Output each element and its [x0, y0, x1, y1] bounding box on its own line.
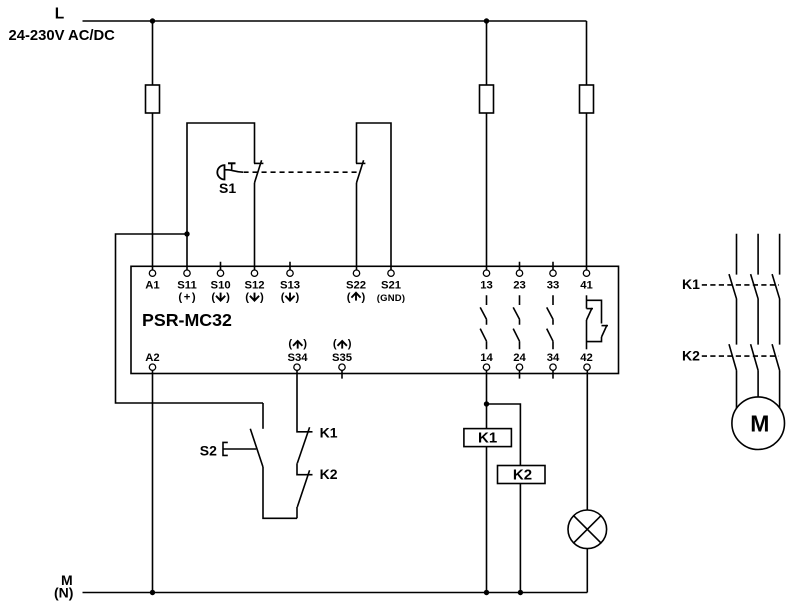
- svg-text:S34: S34: [287, 352, 308, 364]
- svg-text:S35: S35: [332, 352, 352, 364]
- svg-text:S1: S1: [219, 180, 236, 196]
- svg-text:S22: S22: [346, 280, 366, 292]
- svg-text:K1: K1: [682, 276, 700, 292]
- svg-text:42: 42: [580, 352, 593, 364]
- svg-text:): ): [348, 338, 352, 350]
- svg-text:+: +: [184, 292, 191, 304]
- svg-text:S10: S10: [211, 280, 231, 292]
- svg-text:33: 33: [547, 280, 560, 292]
- svg-text:24-230V AC/DC: 24-230V AC/DC: [9, 28, 116, 44]
- svg-text:): ): [296, 292, 300, 304]
- svg-text:L: L: [55, 6, 64, 23]
- svg-text:(GND): (GND): [377, 293, 405, 304]
- svg-text:S21: S21: [381, 280, 401, 292]
- svg-text:): ): [192, 292, 196, 304]
- svg-text:S2: S2: [200, 443, 217, 459]
- svg-text:): ): [362, 292, 366, 304]
- svg-text:PSR-MC32: PSR-MC32: [142, 310, 232, 330]
- svg-text:24: 24: [513, 352, 526, 364]
- svg-text:S12: S12: [244, 280, 264, 292]
- svg-text:K1: K1: [478, 430, 497, 447]
- svg-text:(: (: [281, 292, 285, 304]
- svg-text:23: 23: [513, 280, 526, 292]
- svg-text:K2: K2: [682, 348, 700, 364]
- svg-text:34: 34: [547, 352, 560, 364]
- svg-text:(N): (N): [54, 585, 73, 601]
- svg-text:(: (: [211, 292, 215, 304]
- svg-text:S13: S13: [280, 280, 300, 292]
- svg-text:(: (: [288, 338, 292, 350]
- svg-text:(: (: [178, 292, 182, 304]
- svg-text:K2: K2: [513, 466, 532, 483]
- svg-text:(: (: [333, 338, 337, 350]
- svg-text:(: (: [245, 292, 249, 304]
- svg-text:K2: K2: [320, 466, 338, 482]
- svg-text:): ): [226, 292, 230, 304]
- svg-text:K1: K1: [320, 425, 338, 441]
- svg-text:A1: A1: [145, 280, 159, 292]
- svg-text:41: 41: [580, 280, 593, 292]
- svg-text:14: 14: [480, 352, 493, 364]
- svg-text:A2: A2: [145, 352, 159, 364]
- svg-text:S11: S11: [177, 280, 196, 292]
- svg-text:13: 13: [480, 280, 493, 292]
- svg-text:): ): [260, 292, 264, 304]
- svg-text:M: M: [750, 411, 769, 437]
- svg-text:): ): [303, 338, 307, 350]
- svg-text:(: (: [347, 292, 351, 304]
